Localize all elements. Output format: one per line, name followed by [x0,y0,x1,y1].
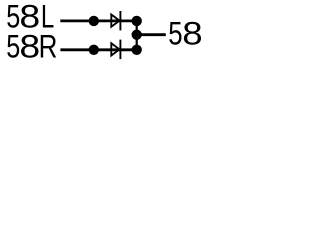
node 58L label [6,0,54,34]
junction dot bottom-right [132,45,142,55]
junction dot bottom-left [89,45,99,55]
svg-text:8: 8 [19,29,40,65]
junction dot top-right [132,16,142,26]
junction dot middle [132,30,142,40]
svg-text:R: R [39,29,58,65]
node 58R label [6,29,57,65]
wire middle (to node 58) [137,33,166,36]
wire top (58L to corner) [60,19,136,22]
diode D-top (58L branch) [111,11,120,30]
wire vertical (joining both rows) [136,21,138,50]
svg-text:8: 8 [182,16,202,52]
diode D-bottom (58R branch) [111,40,120,60]
junction dot top-left [89,16,99,26]
svg-text:5: 5 [168,16,182,52]
node 58 label [168,16,203,52]
svg-text:5: 5 [6,29,20,65]
wire bottom (58R to corner) [60,48,136,51]
